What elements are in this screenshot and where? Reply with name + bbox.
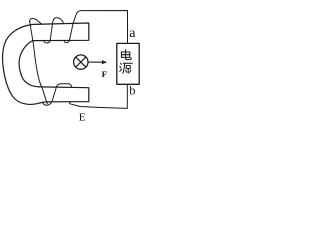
- svg-text:E: E: [79, 112, 86, 124]
- force arrow F head: [102, 60, 107, 64]
- iron core outer bend boundary: [3, 24, 70, 104]
- current into page symbol (X diagonals): [76, 57, 86, 67]
- iron core top bar (top, right, bottom edges): [33, 23, 89, 41]
- iron core bottom bar (top, right, partial bottom edges): [40, 87, 89, 102]
- coil exit turn: under-arc + front diagonal + curl up to wire to terminal a: [64, 11, 128, 44]
- coil turn 2 bump over top bar + front diagonal + under-arc: [44, 18, 64, 43]
- coil wire around left bend down to bottom bar winding: [30, 22, 72, 106]
- svg-text:F: F: [102, 69, 107, 79]
- current into page symbol (circle): [74, 55, 88, 69]
- character 源 (power source text, drawn): [120, 63, 133, 73]
- coil turn 1 bump over top bar: [30, 18, 42, 23]
- wire from coil to terminal b: [70, 84, 128, 108]
- power source box: [117, 43, 139, 84]
- force arrow F shaft: [89, 61, 103, 63]
- svg-text:b: b: [129, 83, 135, 97]
- iron core inner bend boundary: [19, 41, 40, 87]
- svg-text:a: a: [129, 26, 136, 41]
- character 电 (power source text, drawn): [121, 50, 131, 60]
